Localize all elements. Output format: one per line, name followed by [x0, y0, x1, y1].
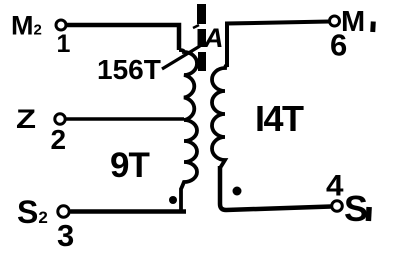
svg-text:Z: Z	[16, 104, 36, 134]
terminal Z (pin 2)	[55, 114, 65, 124]
core A (dashed iron-dust core)	[197, 4, 206, 71]
wire winding S bottom to S1	[220, 166, 331, 210]
wire S2 to winding P2 bottom	[71, 209, 187, 214]
svg-text:2: 2	[51, 124, 67, 155]
polarity dot right winding	[233, 187, 242, 196]
svg-text:1: 1	[57, 30, 71, 58]
terminal S1 (pin 4)	[332, 201, 343, 212]
wire Z to winding tap	[67, 117, 185, 121]
winding P1 156T (left coil, upper section)	[179, 50, 197, 120]
label M1 subscript 1	[370, 21, 376, 32]
svg-text:156T: 156T	[97, 54, 161, 85]
svg-text:A: A	[203, 23, 224, 53]
terminal M1 (pin 6)	[330, 16, 340, 26]
polarity dot left winding	[169, 196, 177, 204]
svg-text:I4T: I4T	[255, 98, 304, 139]
terminal S2 (pin 3)	[58, 206, 69, 217]
svg-text:S: S	[344, 188, 368, 229]
terminal M2 (pin 1)	[56, 20, 66, 30]
svg-text:3: 3	[57, 218, 74, 253]
wire M1 to winding S top	[227, 22, 330, 68]
svg-text:9T: 9T	[110, 146, 149, 185]
label S1 subscript 1	[366, 207, 372, 221]
svg-text:4: 4	[326, 170, 344, 203]
wire M2 to winding P1 top	[66, 25, 179, 50]
winding P2 9T (left coil, lower section)	[181, 120, 197, 212]
svg-text:6: 6	[330, 28, 347, 63]
winding S 14T (right coil)	[212, 65, 227, 168]
leader arrow from 156T to core	[162, 25, 200, 69]
